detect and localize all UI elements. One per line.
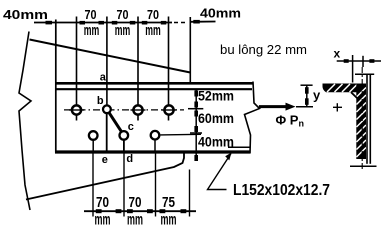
y dim arrowheads [305, 87, 309, 105]
bolt line 3 [137, 17, 139, 121]
centroid mark [333, 103, 342, 111]
svg-text:mm: mm [127, 212, 143, 229]
rupture path b-c [109, 113, 121, 131]
gusset corner extension right [189, 17, 191, 82]
svg-text:mm: mm [84, 22, 100, 39]
angle bottom second line [228, 146, 250, 148]
right vertical dimension chain [190, 90, 202, 162]
rupture path b-e [106, 114, 108, 151]
svg-text:y: y [313, 88, 321, 103]
section: angle horizontal leg (hatched) [323, 84, 358, 93]
svg-text:b: b [97, 95, 104, 107]
stub below hole row2-3 [154, 140, 156, 151]
svg-text:d: d [126, 153, 133, 165]
svg-text:mm: mm [145, 22, 161, 39]
section: gusset plate edge-on [367, 74, 370, 164]
angle top edge line 2 [55, 88, 252, 90]
bolt hole b (open) [103, 105, 111, 113]
gusset bottom edge diagonal [26, 153, 184, 200]
svg-text:c: c [128, 121, 134, 133]
svg-text:40mm: 40mm [3, 7, 48, 22]
svg-text:mm: mm [161, 212, 177, 229]
bottom extension line 2 [123, 154, 125, 217]
bottom dimension line [84, 210, 196, 212]
svg-text:70: 70 [117, 7, 129, 22]
bottom extension line 1 [92, 154, 94, 217]
bolt U4 (circle-cross) [162, 105, 177, 114]
bottom extension line 3 [155, 154, 157, 217]
angle top edge line 1 [55, 82, 253, 85]
svg-text:75: 75 [162, 194, 175, 211]
svg-text:L152x102x12.7: L152x102x12.7 [233, 182, 330, 199]
bolt U3 (circle-cross) [131, 105, 146, 114]
bolt line 2 (a-b) [106, 17, 108, 105]
bottom dim arrowheads [96, 209, 187, 213]
bolt line 1 [76, 17, 78, 121]
top bolt row centerline [64, 109, 184, 111]
svg-text:mm: mm [95, 212, 111, 229]
left break line [19, 32, 31, 211]
bolt U1 (circle-cross) [69, 105, 84, 114]
bolt hole row2-1 [89, 131, 98, 140]
svg-text:40mm: 40mm [198, 134, 234, 150]
section: plate top tick [355, 73, 374, 75]
x dimension [337, 55, 381, 83]
top dim arrowheads [46, 20, 200, 25]
section: bottom tick [350, 165, 377, 167]
svg-text:bu lông 22 mm: bu lông 22 mm [220, 42, 307, 57]
section: bolt centerline [361, 67, 363, 171]
svg-text:e: e [102, 154, 108, 166]
bottom extension line 4 [189, 170, 191, 217]
svg-text:mm: mm [115, 22, 131, 39]
svg-text:70: 70 [85, 7, 97, 22]
rupture path c-d [123, 140, 125, 153]
svg-text:40mm: 40mm [200, 7, 241, 21]
bolt line 4 [168, 17, 170, 121]
bolt row 2 extension to dim [160, 133, 201, 136]
svg-text:70: 70 [129, 194, 142, 211]
stub below hole row2-1 [92, 141, 94, 152]
right break zigzag [245, 82, 260, 154]
y dimension [296, 85, 313, 107]
gusset top edge diagonal [30, 40, 191, 73]
extension line / angle left edge [55, 20, 57, 153]
section: inner fillet [351, 92, 357, 98]
svg-text:a: a [100, 72, 107, 84]
svg-text:52mm: 52mm [198, 88, 234, 104]
right dim arrowheads [194, 91, 198, 162]
angle bottom edge [55, 150, 250, 153]
top dimension line [34, 22, 216, 23]
force arrow Pn [259, 103, 296, 111]
leader to L152x102x12.7 [208, 153, 232, 190]
svg-text:x: x [334, 46, 341, 60]
bolt hole c [120, 131, 129, 140]
x dim arrowheads [344, 59, 375, 63]
section: angle vertical leg (hatched) [356, 84, 366, 160]
bolt hole row2-3 [151, 131, 160, 140]
bolt row 1 tick / 52mm tick [188, 108, 203, 110]
svg-text:70: 70 [96, 194, 109, 211]
svg-text:60mm: 60mm [198, 110, 234, 126]
svg-text:70: 70 [147, 7, 159, 22]
